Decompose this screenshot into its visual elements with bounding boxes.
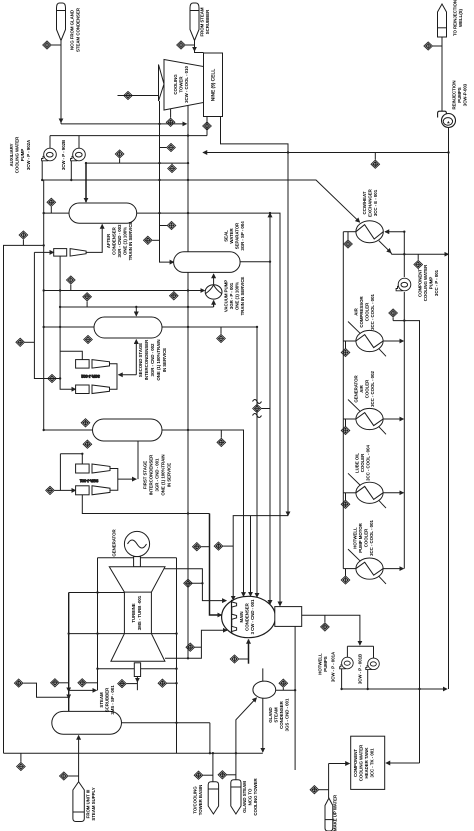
- valve diamond far left: [14, 679, 23, 687]
- wire: stub: [167, 682, 177, 684]
- wire: diamond stub: [50, 207, 52, 213]
- svg-text:3CW - COOL - 010: 3CW - COOL - 010: [184, 66, 189, 103]
- svg-text:3GR - SP - 004: 3GR - SP - 004: [240, 221, 245, 251]
- wire: line y=633.6 right (exhaust): [151, 633, 176, 635]
- wire: CCW pump discharge vertical: [403, 292, 405, 569]
- svg-text:3CC - COOL - 004: 3CC - COOL - 004: [366, 445, 371, 481]
- wire: trunk v270 from y=213 to condenser: [269, 213, 271, 604]
- pump: component cooling water pump 3CC-P-001: [396, 278, 411, 291]
- svg-text:AIR: AIR: [359, 384, 364, 392]
- wire: cooler through-line: [343, 492, 356, 494]
- turbine 3MS-TURB-001 body: [109, 567, 165, 662]
- wire: outlet y=430 right to corner: [162, 430, 244, 596]
- wire: diamond stub: [171, 162, 173, 165]
- heat exchanger CCW 3CC-E-001: [356, 221, 383, 243]
- svg-text:3CW - P - 001A: 3CW - P - 001A: [331, 651, 336, 682]
- wire: x=34.4 vertical: [34, 252, 60, 378]
- wire: stub: [227, 774, 236, 776]
- wire: stub: [152, 239, 159, 241]
- valve diamond below on v343.3: [341, 500, 350, 508]
- wire: v209.9 drop: [209, 723, 211, 753]
- svg-text:3GR-J-002: 3GR-J-002: [81, 374, 100, 378]
- svg-text:AFTER: AFTER: [106, 233, 111, 248]
- wire: condenser CW inlet jog upper: [188, 583, 226, 600]
- svg-text:FIRST STAGE: FIRST STAGE: [143, 461, 148, 489]
- wire: turbine gland line to jog: [164, 569, 202, 584]
- svg-text:STEAM: STEAM: [274, 707, 279, 723]
- wire: condensate header y=697.2 w/ left jog: [23, 683, 68, 697]
- wire: bold drop x=209.5 into condenser: [210, 514, 222, 616]
- svg-text:3CW - P - 001B: 3CW - P - 001B: [358, 654, 363, 684]
- generator circle: [124, 531, 149, 556]
- valve diamond w/ stub to v209.5: [193, 543, 202, 551]
- svg-text:LUBE OIL: LUBE OIL: [355, 453, 360, 473]
- valve diamond: [158, 679, 167, 687]
- wire: line left of fan with diamond: [118, 95, 159, 97]
- svg-text:COOLING TOWER: COOLING TOWER: [253, 777, 258, 815]
- svg-text:COOLER: COOLER: [365, 302, 370, 321]
- wire: HX through line right from pump riser: [385, 231, 404, 233]
- wire: vessel bottom drop to manifold: [135, 340, 137, 375]
- svg-text:EXCHANGER: EXCHANGER: [368, 188, 373, 216]
- valve diamond near downcomer: [167, 143, 176, 151]
- cooling tower fan triangle: [159, 65, 165, 102]
- wire: CCW pump suction riser: [403, 232, 405, 277]
- wire: NCG header y=123.9: [61, 123, 187, 125]
- valve diamond: [118, 680, 127, 688]
- wire: line above turbine y=557.7: [98, 557, 177, 559]
- valve diamond above feed: [115, 150, 124, 158]
- wire: diamond stub: [220, 430, 222, 438]
- wire: discharge header to reinjection trunk: [342, 688, 447, 690]
- wire: tank return inlet from v419.5: [386, 762, 420, 764]
- svg-text:SEAL: SEAL: [224, 230, 229, 242]
- svg-text:PUMP MOTOR: PUMP MOTOR: [358, 522, 363, 552]
- wire: line under turbine y=668.7: [98, 668, 177, 670]
- pump: aux cooling water pump 3CW-P-902B: [71, 148, 86, 161]
- valve diamond below vessel left: [84, 335, 93, 343]
- wire: stub: [201, 546, 209, 548]
- valve diamond: [310, 786, 319, 794]
- ejector 3GR-J-002 upper chamber: [76, 360, 90, 369]
- wire: bottom header y=753.2: [4, 752, 263, 754]
- svg-text:GENERATOR: GENERATOR: [354, 375, 359, 403]
- svg-text:SEPARATOR: SEPARATOR: [235, 222, 240, 249]
- wire: diamond stub: [374, 153, 376, 160]
- wire: tie line to v270: [262, 408, 270, 410]
- wire: cooler through-line: [343, 340, 356, 342]
- cooler: lube oil cooler 3CC-COOL-004: [348, 473, 386, 508]
- svg-text:REINJECTION: REINJECTION: [452, 81, 457, 110]
- wire: gland condenser drain to header: [262, 698, 264, 752]
- wire: stub: [392, 318, 394, 321]
- condenser tube sheet chord: [231, 600, 233, 634]
- flag: FROM STEAM SCRUBBER: [190, 3, 199, 41]
- wire: diamond stub: [195, 646, 202, 648]
- svg-text:NCG FROM GLAND: NCG FROM GLAND: [70, 10, 75, 50]
- svg-text:GLAND STEAM: GLAND STEAM: [242, 781, 247, 813]
- valve diamond at NCG stem: [43, 41, 52, 49]
- valve diamond below on v343.3: [341, 426, 350, 434]
- wire: ejector discharge header y=513.5: [82, 495, 209, 514]
- wire: condensate line y=213.1 right to hotwell drop: [137, 213, 280, 606]
- svg-text:NCG TO: NCG TO: [248, 788, 253, 805]
- flag: MAKE UP WATER: [325, 798, 333, 831]
- wire: v68.7: [68, 593, 70, 712]
- svg-text:3CW - P - 902B: 3CW - P - 902B: [61, 140, 66, 170]
- wire: pump A suction drop: [41, 161, 43, 180]
- valve diamond below header: [17, 762, 26, 770]
- pipe break symbol lower: [253, 414, 262, 418]
- wire: stub: [68, 775, 78, 777]
- wire: condenser CW inlet jog lower: [165, 630, 227, 658]
- wire: stub: [60, 682, 69, 684]
- svg-text:HEADER TANK: HEADER TANK: [364, 747, 369, 779]
- wire: stub: [417, 254, 419, 260]
- svg-text:IN SERVICE: IN SERVICE: [162, 348, 167, 372]
- svg-text:3CW-P-003: 3CW-P-003: [463, 83, 468, 106]
- wire: reinjection stem down to pump: [441, 37, 443, 111]
- wire: make-up riser: [328, 764, 330, 799]
- pump: reinjection pump 3CW-P-003: [438, 111, 456, 127]
- hotwell box: [275, 607, 302, 627]
- wire: vacuum pump riser to separator: [213, 274, 215, 284]
- vessel: seal water separator 3GR-SP-004: [174, 252, 241, 273]
- valve diamond above y=290.5: [67, 276, 76, 284]
- flag: NCG FROM GLAND STEAM CONDENSER: [57, 3, 66, 41]
- wire: HX through line left: [343, 231, 356, 233]
- wire: cooler through-line: [343, 568, 356, 570]
- svg-text:PUMPS: PUMPS: [457, 87, 462, 102]
- valve diamond below HX outlet line: [414, 260, 423, 268]
- svg-text:TURBINE: TURBINE: [131, 603, 136, 622]
- wire: NINE CELL drain x=207: [206, 117, 208, 136]
- svg-text:AIR: AIR: [354, 307, 359, 315]
- wire: aux pump discharge header y=135.6: [50, 135, 207, 137]
- wire: stub: [319, 789, 329, 791]
- svg-text:3 CW - CND - 001: 3 CW - CND - 001: [250, 599, 255, 634]
- valve diamond: [78, 679, 87, 687]
- wire: basin riser: [212, 753, 214, 782]
- ejector 3GR-J-001 lower cone: [92, 486, 110, 495]
- pump: hotwell pump 3CW-P-001B: [366, 658, 380, 670]
- svg-text:COOLER: COOLER: [360, 453, 365, 472]
- svg-text:INTERCONDENSER: INTERCONDENSER: [149, 454, 154, 495]
- ejector 3GR-J-002 upper cone: [92, 360, 110, 369]
- wire: diamond stub: [86, 301, 88, 307]
- svg-text:TRAIN IN SERVICE: TRAIN IN SERVICE: [128, 222, 133, 261]
- wire: vacuum pump suction y=290.5: [44, 290, 205, 292]
- wire: v250.5 drop: [250, 516, 252, 597]
- cooling tower fan louver line: [158, 65, 160, 102]
- cooling tower 3CW-COOL-010 trapezoid: [164, 60, 204, 111]
- flag: FROM UNIT III STEAM SUPPLY: [73, 782, 84, 822]
- svg-text:STEAM CONDENSER: STEAM CONDENSER: [76, 7, 81, 52]
- wire: vessel bottom drop: [137, 441, 139, 479]
- wire: gland condenser vent stub: [262, 668, 264, 681]
- pump: hotwell pump 3CW-P-001A: [340, 657, 354, 669]
- wire: NCG flag stem down: [60, 41, 62, 123]
- wire: tower basin downcomer x=159.5: [160, 101, 174, 262]
- svg-text:ONE (1) 100%TRAIN: ONE (1) 100%TRAIN: [156, 339, 161, 380]
- svg-text:CONDENSER: CONDENSER: [245, 602, 250, 630]
- wire: v176.5: [176, 558, 178, 754]
- svg-text:WELL(S): WELL(S): [458, 8, 463, 27]
- wire: scrubber steam riser arrows: [68, 688, 70, 692]
- ejector 3GR-J-003 nozzle cone: [70, 249, 86, 257]
- svg-text:MAKE UP WATER: MAKE UP WATER: [333, 794, 338, 831]
- valve diamond below on v343.3: [341, 576, 350, 584]
- wire: left main vertical x=43.7: [43, 180, 45, 430]
- valve diamond on feed line: [168, 164, 177, 172]
- wire: pump B discharge: [367, 670, 369, 690]
- wire: pump A top stub: [49, 136, 51, 149]
- wire: line y=245.4 far-left corner: [4, 245, 44, 753]
- main condenser 3 CW-CND-001 shell: [222, 596, 276, 637]
- svg-text:COOLING: COOLING: [173, 74, 178, 95]
- wire: ejector suction from x=34.4: [34, 251, 53, 253]
- valve diamond at scrubber stem: [177, 41, 186, 49]
- wire: ejector left vertical: [60, 454, 75, 491]
- valve diamond at jog: [186, 643, 195, 651]
- wire: diamond stub: [119, 159, 121, 164]
- wire: condenser bottom stub (bold): [248, 640, 250, 664]
- wire: diamond stub: [22, 240, 24, 246]
- ejector 3GR-J-001 upper chamber: [76, 464, 90, 473]
- wire: after condenser feed drop (bold): [85, 163, 87, 202]
- svg-text:COOLER: COOLER: [364, 528, 369, 547]
- svg-text:TOWER BASIN: TOWER BASIN: [198, 785, 203, 816]
- svg-text:CONDENSER: CONDENSER: [279, 700, 284, 728]
- wire: hotwell box drain v295.1: [294, 626, 296, 770]
- wire: blowdown line y=152.5 to reinjection: [203, 152, 449, 154]
- svg-text:COMPONENT: COMPONENT: [418, 269, 423, 297]
- wire: hotwell box outlet to pumps: [302, 615, 360, 645]
- valve diamond below suction line: [170, 292, 179, 300]
- turbine lower shaft: [134, 663, 140, 677]
- valve diamond below vessel left: [83, 440, 92, 448]
- svg-text:FROM UNIT III: FROM UNIT III: [86, 790, 91, 819]
- wire: stub: [203, 774, 213, 776]
- ejector 3GR-J-002 lower chamber: [76, 385, 90, 394]
- valve diamond left stub on x=34.4: [16, 338, 25, 346]
- svg-text:COMPONENT: COMPONENT: [353, 749, 358, 777]
- svg-text:3CC - P - 001: 3CC - P - 001: [434, 269, 439, 296]
- wire: CCW supply vertical x=343.3: [342, 232, 344, 569]
- svg-text:PUMP: PUMP: [429, 277, 434, 290]
- svg-text:ONE (1) 100%: ONE (1) 100%: [123, 227, 128, 255]
- valve diamond left of vessel: [47, 198, 56, 206]
- pump: vacuum pump 3GR-P-001: [205, 285, 222, 299]
- wire: ejector discharge up to vessel: [86, 225, 102, 253]
- flag: TO COOLING TOWER BASIN: [208, 782, 218, 814]
- valve diamond on blowdown line: [371, 160, 380, 168]
- condenser tube marks: [232, 602, 237, 632]
- wire: scrubber outlet y=722.8: [122, 722, 210, 724]
- svg-text:3GR - CND - 001: 3GR - CND - 001: [155, 458, 160, 492]
- svg-text:HOTWELL: HOTWELL: [318, 653, 323, 675]
- valve diamond below tower: [166, 118, 175, 126]
- vessel: first stage intercondenser 3GR-CND-001: [93, 419, 163, 441]
- wire: scrubber flag stem: [194, 41, 196, 52]
- valve diamond on v188: [184, 579, 193, 587]
- component cooling water header tank 3CC-TK-001: [351, 736, 385, 789]
- svg-text:3GR-J-001: 3GR-J-001: [80, 478, 99, 482]
- valve diamond: [194, 771, 203, 779]
- svg-text:FROM STEAM: FROM STEAM: [200, 7, 205, 36]
- ejector 3GR-J-002 lower cone: [92, 385, 110, 394]
- ejector 3GR-J-003 chamber: [54, 249, 67, 257]
- svg-text:PUMP: PUMP: [20, 149, 25, 162]
- vessel: after condenser 3GR-CND-003: [69, 203, 137, 223]
- svg-text:COMPRESSOR: COMPRESSOR: [359, 296, 364, 328]
- valve diamond on NINE CELL drain: [203, 122, 212, 130]
- wire: ejector outlet manifold: [110, 469, 136, 491]
- gland steam condenser 3GS-CND-001: [253, 681, 276, 698]
- wire: steam supply riser: [78, 736, 80, 782]
- valve diamond on y=378.5: [48, 374, 57, 382]
- svg-text:SCRUBBER: SCRUBBER: [205, 9, 210, 34]
- pump: aux cooling water pump 3CW-P-902A: [42, 148, 57, 161]
- wire: intercondenser vapour line y=307: [60, 306, 214, 308]
- wire: y=515.6 return jog: [233, 516, 288, 600]
- wire: pump suction header: [347, 645, 373, 647]
- svg-text:COOLING WATER: COOLING WATER: [15, 136, 20, 173]
- wire: pump A suction stub: [346, 646, 348, 657]
- wire: cooler through-line: [343, 418, 356, 420]
- svg-text:STEAM SUPPLY: STEAM SUPPLY: [91, 787, 96, 820]
- svg-text:TRAIN IN SERVICE: TRAIN IN SERVICE: [240, 277, 245, 316]
- wire: diamond stub: [186, 44, 195, 46]
- valve diamond on reinjection stem: [424, 42, 433, 50]
- svg-text:3CC - TK - 001: 3CC - TK - 001: [370, 748, 375, 778]
- wire: diamond stub: [433, 45, 442, 47]
- wire: gland steam diagonal from scrubber line: [236, 698, 257, 780]
- svg-text:3CC - COOL - 002: 3CC - COOL - 002: [370, 371, 375, 407]
- wire: gland steam line y=592.5: [69, 592, 125, 594]
- valve diamond above vessel left: [81, 419, 90, 427]
- wire: CCW return branch to v419.5: [393, 321, 419, 763]
- valve diamond at condenser drain: [230, 655, 239, 663]
- wire: make-up inlet: [329, 763, 350, 765]
- wire: ejector left circuit top: [60, 454, 82, 464]
- svg-text:TOWER: TOWER: [179, 76, 184, 93]
- valve diamond on riser: [60, 772, 69, 780]
- flag: TO REINJECTION WELL(S): [438, 4, 447, 37]
- wire: stub: [20, 753, 22, 762]
- pipe break symbol upper: [253, 400, 262, 404]
- ejector 3GR-J-001 upper cone: [92, 464, 110, 473]
- svg-text:WATER: WATER: [229, 227, 234, 243]
- svg-text:VACUUM PUMP: VACUUM PUMP: [224, 280, 229, 312]
- wire: diamond stub: [160, 147, 167, 149]
- valve diamond below on v343.3: [341, 348, 350, 356]
- svg-text:SCRUBBER: SCRUBBER: [105, 687, 110, 712]
- wire: stub: [324, 615, 326, 622]
- wire: diamond stub: [70, 285, 72, 291]
- svg-text:COOLING WATER: COOLING WATER: [423, 264, 428, 301]
- wire: line y=633.6 left: [69, 633, 125, 635]
- wire: gland condenser outlet to v295: [276, 689, 295, 691]
- wire: stub: [127, 683, 138, 685]
- wire: stub: [160, 225, 167, 227]
- svg-text:3CC - COOL - 001: 3CC - COOL - 001: [370, 294, 375, 330]
- svg-text:NINE (9) CELL: NINE (9) CELL: [211, 69, 217, 102]
- wire: reinjection trunk down right side: [448, 127, 450, 689]
- valve diamond: [389, 309, 398, 317]
- valve diamond above y=245.4: [19, 231, 28, 239]
- wire: separator outlet to trunk v270: [240, 261, 270, 263]
- ejector 3GR-J-001 lower chamber: [76, 486, 90, 495]
- wire: ejector outlet manifold: [110, 364, 118, 389]
- valve diamond above outlet: [279, 679, 288, 687]
- svg-text:PUMPS: PUMPS: [323, 656, 328, 671]
- svg-text:3MS - TURB -001: 3MS - TURB -001: [137, 595, 142, 630]
- svg-text:IN SERVICE: IN SERVICE: [167, 463, 172, 487]
- valve diamond row: [51, 679, 60, 687]
- valve diamond below line y=327: [217, 334, 226, 342]
- wire: suction header y=180 + diagonal to CCW HX: [42, 180, 360, 222]
- valve diamond on fan line: [124, 91, 133, 99]
- wire: diamond stub: [25, 341, 35, 343]
- wire: vacuum pump bottom stub: [213, 301, 215, 308]
- svg-text:3GS - CND - 001: 3GS - CND - 001: [285, 698, 290, 731]
- wire: feed line y=430 left: [44, 429, 93, 431]
- wire: stub: [239, 658, 248, 660]
- wire: pump B suction drop: [70, 161, 72, 180]
- svg-text:TO REINJECTION: TO REINJECTION: [453, 0, 458, 36]
- cooler: generator air cooler 3CC-COOL-002: [348, 400, 386, 435]
- wire: stub: [223, 545, 233, 547]
- svg-text:ONE (1) 100%: ONE (1) 100%: [235, 282, 240, 310]
- svg-text:SECOND STAGE: SECOND STAGE: [138, 343, 143, 377]
- wire: stub: [282, 688, 284, 690]
- svg-text:HOTWELL: HOTWELL: [353, 527, 358, 549]
- svg-text:3GR - CND - 002: 3GR - CND - 002: [150, 343, 155, 377]
- wire: pump B suction stub: [373, 646, 375, 658]
- svg-text:3CW - P - 902A: 3CW - P - 902A: [26, 139, 31, 170]
- wire: diamond stub up: [347, 232, 349, 240]
- wire: steam branch to v97.5: [69, 689, 97, 691]
- svg-text:AUXILIARY: AUXILIARY: [9, 143, 14, 166]
- svg-text:3CC - COOL - 001: 3CC - COOL - 001: [369, 520, 374, 556]
- valve diamond left of ejector: [46, 486, 55, 494]
- svg-text:TO/COOLING: TO/COOLING: [193, 786, 198, 814]
- wire: tower hot water riser x=188 (down to condenser area): [187, 106, 189, 659]
- wire: after condenser CW feed y=163.1: [86, 162, 188, 164]
- wire: diamond stub: [52, 44, 61, 46]
- wire: ejector rect2 drain x=60.1: [60, 256, 76, 389]
- svg-text:CONDENSER: CONDENSER: [112, 226, 117, 254]
- svg-text:3MS - SP - 001: 3MS - SP - 001: [110, 685, 115, 715]
- svg-text:3GR - CND - 003: 3GR - CND - 003: [117, 224, 122, 258]
- svg-text:ONE (1) 100%TRAIN: ONE (1) 100%TRAIN: [161, 454, 166, 495]
- wire: drop into 2nd stage vessel top: [135, 307, 137, 316]
- svg-text:MAIN: MAIN: [239, 611, 244, 622]
- wire: diamond stub to tower bottom: [170, 109, 172, 118]
- flag: GLAND STEAM NCG TO COOLING TOWER: [231, 780, 241, 814]
- svg-text:INTERCONDENSER: INTERCONDENSER: [144, 339, 149, 380]
- wire: pump A discharge: [341, 669, 343, 689]
- svg-text:COOLER: COOLER: [365, 379, 370, 398]
- valve diamond above y=307: [83, 293, 92, 301]
- valve diamond right of downcomer: [167, 221, 176, 229]
- wire: diamond stub: [55, 489, 61, 491]
- wire: stub: [87, 682, 98, 684]
- generator shaft: [134, 557, 141, 567]
- valve diamond below outlet: [217, 438, 226, 446]
- valve diamond on break: [253, 404, 262, 412]
